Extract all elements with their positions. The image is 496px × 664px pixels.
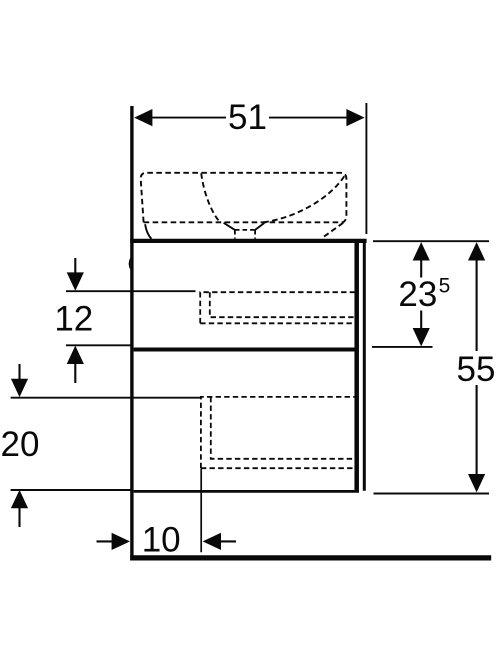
svg-text:51: 51 <box>228 98 267 137</box>
dim 55 down arrow <box>468 474 485 492</box>
dim 23.5 line upper <box>420 259 422 278</box>
dim 55 bottom tick <box>374 493 490 495</box>
dim 12 top tick <box>66 290 196 292</box>
dim 10 right arrow <box>203 533 221 550</box>
dim 51 line <box>140 117 358 119</box>
dim 51 right arrow <box>346 109 364 126</box>
dim 51 left arrow <box>134 109 152 126</box>
dim 55 up arrow <box>468 242 485 260</box>
dim 23.5 bottom tick <box>372 346 433 348</box>
svg-text:10: 10 <box>142 520 181 559</box>
svg-text:23: 23 <box>398 275 437 314</box>
dim 55 line lower <box>476 385 478 476</box>
dim 55 line upper <box>476 259 478 352</box>
bottom drawer cutout inner lines <box>211 397 355 459</box>
dim 20 top tick <box>11 397 201 399</box>
dim 12 bottom tick <box>66 344 132 346</box>
dim 23.5 down arrow <box>413 328 430 346</box>
svg-text:55: 55 <box>457 350 496 389</box>
dim 12 top arrow <box>74 258 76 275</box>
dim 23.5 line lower <box>420 311 422 331</box>
top drawer cutout dashed rect <box>200 292 354 323</box>
svg-text:5: 5 <box>439 275 451 298</box>
wall line <box>130 106 133 561</box>
cabinet top slab <box>130 239 366 243</box>
basin right foot dashed <box>323 223 344 238</box>
basin interior right curve <box>263 176 345 223</box>
dim 23.5 top tick <box>373 240 489 242</box>
cabinet bottom <box>134 490 359 493</box>
dim 20 top arrow <box>18 364 20 381</box>
dim 10 left arrow <box>112 533 130 550</box>
floor line <box>130 555 491 560</box>
basin drain left slant <box>224 223 235 230</box>
dim 20 bottom tick <box>11 489 133 491</box>
dim 12 bottom arrow <box>74 362 76 384</box>
svg-text:20: 20 <box>1 425 40 464</box>
basin drain right slant <box>255 223 264 230</box>
cabinet front second line <box>363 243 366 491</box>
basin left foot <box>145 224 151 239</box>
dim 10 left line <box>97 540 115 542</box>
basin outer dashed outline <box>141 173 347 223</box>
dim 23.5 up arrow <box>413 242 430 260</box>
bottom drawer cutout dashed rect <box>201 397 355 468</box>
wall fixing bump <box>129 258 131 271</box>
dim 10 extension line <box>200 469 202 553</box>
basin interior left curve <box>201 173 219 222</box>
dim 20 bottom arrow <box>18 507 20 528</box>
cabinet right panel thick line <box>354 243 359 493</box>
svg-text:12: 12 <box>54 300 93 339</box>
dim 51 extension line right <box>365 103 367 234</box>
dim 10 right line <box>219 540 236 542</box>
cabinet divider <box>134 348 355 352</box>
basin drain bottom dashed <box>235 230 255 239</box>
top drawer cutout inner lines <box>210 292 355 317</box>
